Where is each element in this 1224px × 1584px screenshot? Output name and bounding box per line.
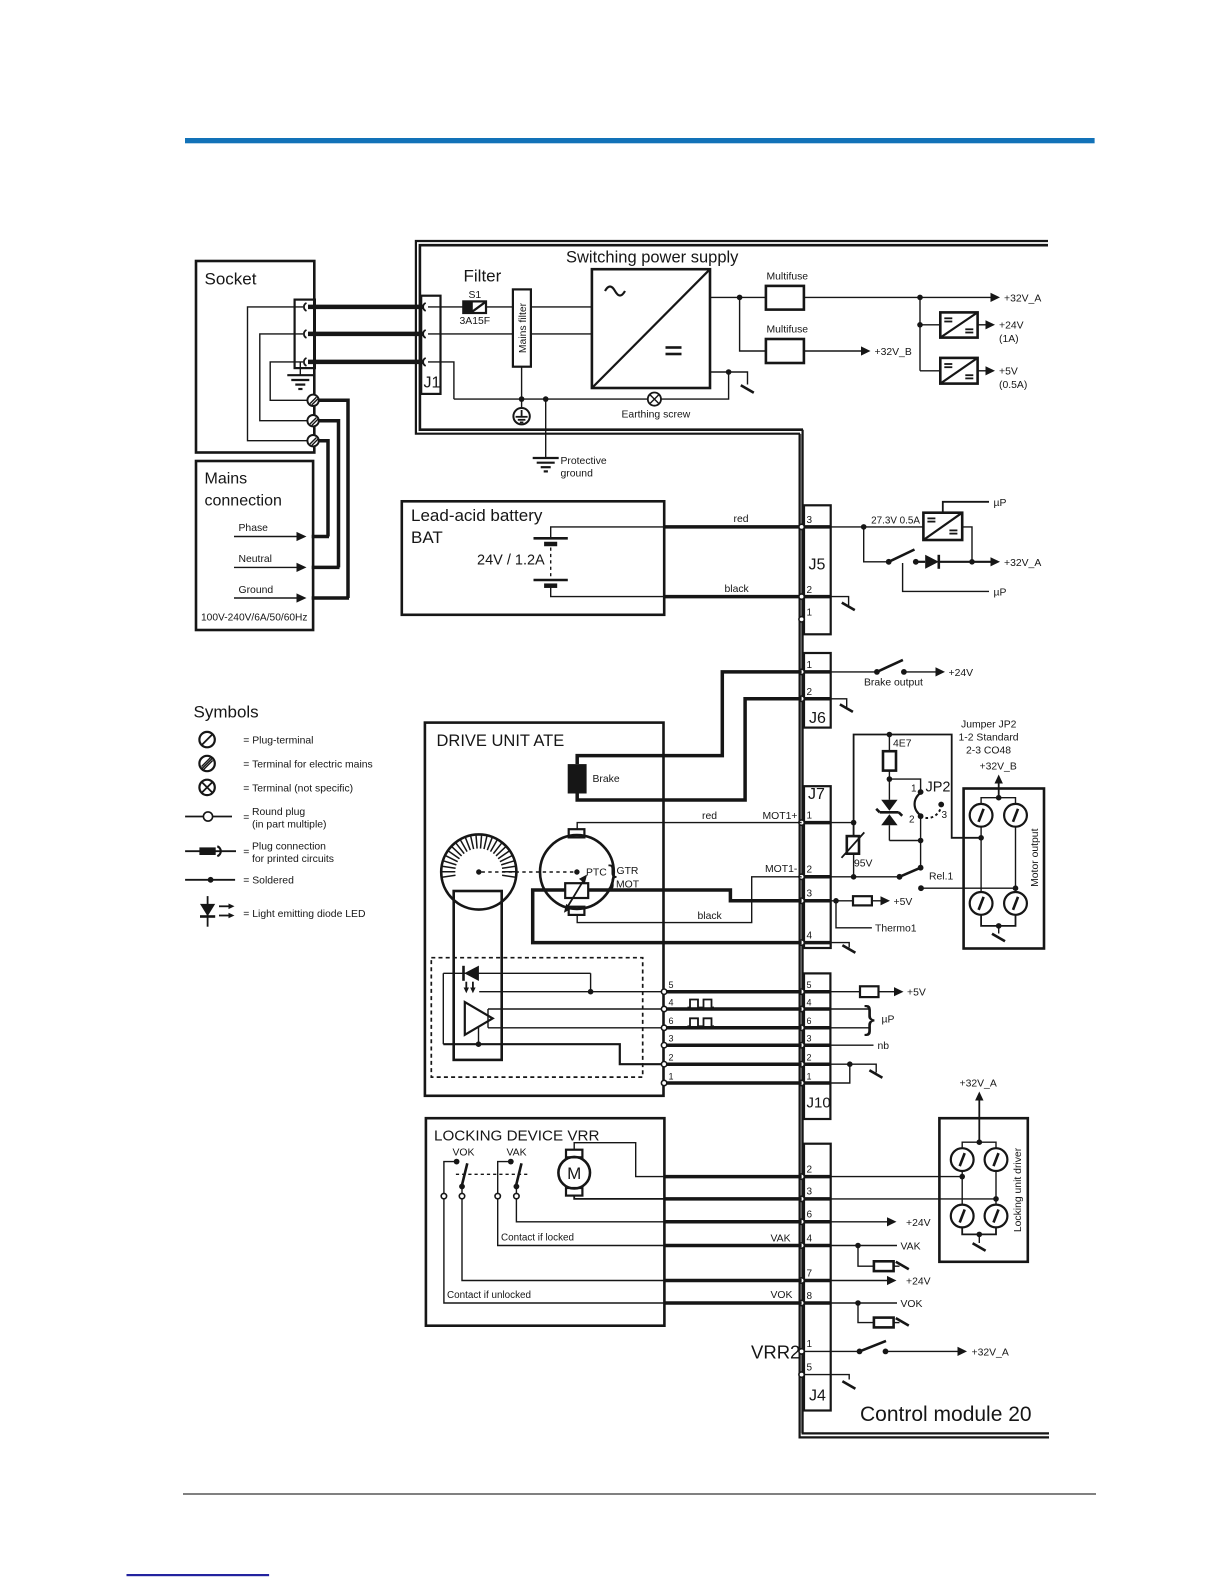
chassis tick at J5 pin2 — [831, 597, 855, 611]
svg-text:VAK: VAK — [507, 1148, 527, 1159]
wire J10 pin3 nb — [830, 1044, 873, 1046]
svg-text:J5: J5 — [809, 557, 826, 574]
svg-text:Multifuse: Multifuse — [767, 272, 809, 283]
resistor +5V encoder — [860, 986, 879, 997]
svg-text:1: 1 — [807, 608, 813, 619]
svg-text:Phase: Phase — [239, 523, 269, 534]
junction diode output — [969, 559, 975, 565]
cable encoder 2 — [664, 1062, 802, 1066]
svg-text:JP2: JP2 — [926, 780, 951, 796]
chassis tick driver — [973, 1234, 986, 1250]
H-bridge right column — [1015, 827, 1017, 892]
node +5V (0.5A) — [986, 366, 1028, 391]
junction driver left — [959, 1174, 965, 1180]
svg-text:J4: J4 — [809, 1388, 826, 1405]
wire amp bottom to common — [478, 1027, 480, 1044]
cable to J4 pin7 — [664, 1279, 801, 1283]
wire resistor to +5V node — [872, 900, 881, 902]
svg-text:GTR: GTR — [617, 866, 639, 877]
node +32V_A vrr2 — [958, 1347, 1009, 1359]
J10 pin 3 — [799, 1043, 804, 1048]
J4 pin 3 — [799, 1196, 804, 1201]
svg-text:PTC: PTC — [586, 868, 607, 879]
pulse symbol ch6 — [688, 1018, 715, 1026]
wire J10 pin6 to uP — [830, 1027, 869, 1029]
wire ground terminal to mains Ground — [319, 400, 348, 598]
svg-text:Control module 20: Control module 20 — [860, 1403, 1032, 1426]
svg-text:+32V_B: +32V_B — [875, 347, 912, 358]
wire J4 pin3 to driver — [831, 1198, 996, 1200]
locking motor M — [558, 1150, 590, 1196]
junction charger input — [861, 524, 867, 530]
svg-text:black: black — [698, 911, 723, 922]
svg-text:Rel.1: Rel.1 — [929, 872, 953, 883]
junction thermo tap — [833, 898, 839, 904]
J7 pin 1 — [799, 820, 804, 825]
svg-text:3: 3 — [669, 1034, 674, 1044]
wire switch to diode — [916, 561, 925, 563]
node +32V_A — [991, 293, 1042, 305]
wire Rel.1 throw to H-bridge — [921, 887, 1016, 889]
top blue rule — [185, 138, 1095, 143]
junction pin5 net — [588, 989, 594, 995]
chassis tick at J7 pin4 — [831, 943, 856, 953]
terminal for electric mains: ground (top) — [307, 395, 318, 406]
VOK terminal a — [441, 1193, 446, 1198]
junction 4E7 bottom — [887, 776, 893, 782]
svg-text:7: 7 — [807, 1268, 813, 1279]
J4 pin 4 — [799, 1243, 804, 1248]
connector J10 — [802, 973, 831, 1119]
cable brake wire to J6 pin2 — [664, 699, 802, 800]
diode battery to +32V_A — [925, 555, 939, 569]
J10 pin 5 — [799, 989, 804, 994]
svg-text:Brake output: Brake output — [864, 678, 923, 689]
legend soldered — [185, 876, 294, 887]
svg-text:Brake: Brake — [593, 774, 620, 785]
connector J6 — [802, 653, 831, 728]
H-bridge FET top-right — [1004, 804, 1027, 827]
wire Thermo1 — [836, 901, 872, 928]
J4 pin 7 — [799, 1278, 804, 1283]
svg-text:+32V_A: +32V_A — [960, 1079, 997, 1090]
svg-text:Contact if unlocked: Contact if unlocked — [447, 1290, 531, 1301]
svg-text:4: 4 — [807, 997, 812, 1007]
svg-text:Mains: Mains — [205, 471, 248, 488]
cable encoder 6 — [664, 1026, 802, 1030]
svg-text:3: 3 — [942, 810, 948, 821]
svg-text:3: 3 — [807, 1034, 812, 1044]
wire J4 pin2 to driver — [831, 1176, 963, 1178]
resistor 4E7 — [883, 735, 912, 780]
H-bridge FET top-left — [970, 804, 993, 827]
optocoupler dashed box — [431, 958, 642, 1077]
svg-text:Mains filter: Mains filter — [518, 302, 529, 353]
svg-text:Plug connection: Plug connection — [252, 842, 326, 853]
wire battery minus (black) — [551, 586, 665, 597]
svg-text:4: 4 — [669, 997, 674, 1007]
wire J10 pin4 to uP — [830, 1008, 869, 1010]
svg-text:VOK: VOK — [901, 1299, 923, 1310]
svg-text:2: 2 — [807, 687, 813, 698]
H-bridge bottom rail — [981, 915, 1015, 926]
svg-text:S1: S1 — [469, 290, 482, 301]
cable red to J5 pin3 — [664, 525, 801, 529]
svg-text:VOK: VOK — [771, 1290, 793, 1301]
svg-text:J1: J1 — [424, 375, 441, 392]
wire VOK-b to J4 pin7 — [462, 1199, 664, 1281]
svg-text:=: = — [243, 813, 249, 824]
drive motor MOT — [540, 829, 614, 915]
svg-text:DRIVE UNIT ATE: DRIVE UNIT ATE — [437, 732, 565, 750]
svg-text:8: 8 — [807, 1291, 813, 1302]
driver right column — [995, 1171, 997, 1205]
wire 4E7 to JP2 pin1 — [889, 779, 920, 792]
wire 24V output — [978, 324, 986, 326]
svg-text:black: black — [725, 584, 750, 595]
LED emitter — [464, 966, 479, 994]
connector J4 — [802, 1144, 831, 1411]
VAK terminal a — [495, 1193, 500, 1198]
junction transil/JP2 — [918, 838, 924, 844]
wire +32V_A rail — [804, 296, 991, 298]
terminal for electric mains: phase (bottom) — [307, 435, 318, 446]
junction left column — [978, 835, 984, 841]
J6 pin 1 — [799, 669, 804, 674]
wire diode to +32V_A — [939, 561, 991, 563]
chassis tick at J6 pin2 — [831, 699, 853, 712]
wire J6 pin1 brake output — [831, 671, 877, 673]
svg-text:VRR2: VRR2 — [751, 1342, 800, 1363]
svg-text:95V: 95V — [854, 859, 873, 870]
battery disconnect switch — [886, 550, 919, 565]
J6 pin 2 — [799, 696, 804, 701]
locking unit driver box — [939, 1118, 1027, 1262]
wire mains filter to SPS (phase) — [531, 306, 592, 308]
cable brake wire to J6 pin1 — [664, 672, 802, 756]
svg-text:Multifuse: Multifuse — [767, 325, 809, 336]
socket pin 2 — [304, 330, 307, 338]
wire charger output down — [962, 527, 972, 562]
wire J4 pin6 to +24V — [831, 1221, 888, 1223]
wire battery plus (red) — [551, 527, 665, 538]
wire VAK-a to J4 pin4 — [498, 1199, 665, 1246]
protective earth circle symbol — [513, 399, 529, 424]
J10 pin 2 — [799, 1062, 804, 1067]
svg-text:MOT1+: MOT1+ — [763, 811, 798, 822]
svg-text:6: 6 — [669, 1016, 674, 1026]
legend terminal not specific — [199, 780, 353, 795]
mains Phase arrow — [234, 523, 329, 541]
pulse symbol ch4 — [688, 1000, 715, 1008]
wire J10 pin2 with chassis tick — [830, 1064, 876, 1072]
svg-text:µP: µP — [994, 588, 1007, 599]
wire mains filter to SPS (neutral) — [531, 333, 592, 335]
cable socket pin3 to J1 pin3 — [308, 360, 424, 365]
wire J7 pin3 to +5V — [831, 900, 853, 902]
wire amp out B — [488, 1027, 664, 1029]
wire J4 pin1 to switch — [831, 1350, 860, 1352]
svg-text:1: 1 — [669, 1071, 674, 1081]
svg-text:connection: connection — [205, 493, 282, 510]
wire 5V output — [978, 370, 986, 372]
driver FET bottom-right — [985, 1205, 1008, 1228]
DC-DC converter 24V — [940, 312, 977, 337]
junction Rel.1 throw — [918, 885, 924, 891]
legend LED — [200, 896, 365, 927]
J5 pin 2 — [799, 594, 804, 599]
chassis tick H-bridge — [992, 926, 1005, 941]
svg-text:= Terminal (not specific): = Terminal (not specific) — [243, 784, 353, 795]
junction: protective ground tap — [543, 396, 549, 402]
H-bridge FET bottom-right — [1004, 892, 1027, 915]
wire J5 pin3 to charger — [831, 526, 923, 528]
motor output module box — [964, 789, 1044, 949]
footer navy underline — [127, 1574, 270, 1576]
LED wire — [443, 972, 590, 974]
svg-text:4E7: 4E7 — [893, 739, 912, 750]
svg-text:M: M — [567, 1164, 581, 1183]
svg-text:+32V_A: +32V_A — [972, 1347, 1009, 1358]
svg-text:Earthing screw: Earthing screw — [622, 410, 691, 421]
svg-text:Symbols: Symbols — [194, 703, 259, 722]
svg-text:Locking unit driver: Locking unit driver — [1013, 1147, 1024, 1232]
wire battery switch feed — [864, 527, 889, 562]
svg-text:ground: ground — [561, 469, 594, 480]
junction top rail — [996, 795, 1002, 801]
svg-text:red: red — [734, 514, 749, 525]
node +24V lock — [887, 1217, 931, 1229]
svg-text:4: 4 — [807, 1233, 813, 1244]
svg-text:Motor output: Motor output — [1030, 828, 1041, 886]
drive pin 6 — [661, 1025, 666, 1030]
fuse S1 3A15F — [460, 290, 491, 327]
svg-text:= Light emitting diode LED: = Light emitting diode LED — [243, 909, 365, 920]
connector J5 — [802, 505, 831, 634]
svg-text:1: 1 — [807, 1071, 812, 1081]
svg-text:+24V: +24V — [999, 321, 1024, 332]
Socket box — [196, 261, 314, 453]
wire common to pin2 — [443, 1044, 664, 1064]
svg-text:24V / 1.2A: 24V / 1.2A — [477, 553, 545, 569]
Mains filter box — [513, 289, 531, 366]
drive pin 5 — [661, 989, 666, 994]
svg-text:2-3 CO48: 2-3 CO48 — [966, 746, 1011, 757]
svg-text:Protective: Protective — [561, 456, 607, 467]
svg-text:5: 5 — [669, 980, 674, 990]
wire socket pin1 to phase terminal — [248, 307, 308, 441]
VOK terminal b — [459, 1193, 464, 1198]
J5 pin 3 — [799, 524, 804, 529]
drive pin 3 — [661, 1043, 666, 1048]
battery BAT symbol — [534, 538, 568, 585]
svg-text:27.3V 0.5A: 27.3V 0.5A — [871, 516, 920, 527]
wire S1 to mains filter — [486, 306, 513, 308]
svg-text:VOK: VOK — [453, 1148, 475, 1159]
transil suppressor — [876, 779, 902, 840]
svg-text:Neutral: Neutral — [239, 554, 273, 565]
drive pin 4 — [661, 1006, 666, 1011]
encoder disc — [441, 834, 516, 909]
brake output switch — [874, 660, 907, 675]
wire VOK-a contact-if-unlocked to J4 pin8 — [444, 1199, 665, 1303]
varistor 95V — [842, 823, 873, 877]
svg-text:for printed circuits: for printed circuits — [252, 854, 334, 865]
Mains connection box — [196, 461, 313, 630]
node +32V_B feed — [980, 762, 1017, 798]
mains Ground arrow — [234, 585, 349, 603]
brake coil — [568, 764, 620, 793]
svg-text:red: red — [702, 811, 717, 822]
brace uP encoder signals — [864, 999, 894, 1036]
wire J7 pin1 to protection net — [831, 822, 854, 824]
svg-text:Switching power supply: Switching power supply — [566, 249, 739, 267]
driver FET bottom-left — [951, 1205, 974, 1228]
junction 24V converter tap — [917, 295, 923, 301]
svg-text:2: 2 — [807, 585, 813, 596]
J4 pin 8 — [799, 1300, 804, 1305]
svg-text:1: 1 — [807, 660, 813, 671]
connector J7 — [802, 786, 831, 948]
J1 pin 3 — [423, 358, 426, 366]
cable to J4 pin8 — [664, 1301, 801, 1305]
svg-text:+32V_B: +32V_B — [980, 762, 1017, 773]
socket connector housing — [295, 300, 315, 369]
wire transil bottom to JP2 net — [889, 840, 920, 842]
wire switch to +24V — [904, 671, 936, 673]
svg-text:J7: J7 — [808, 786, 825, 803]
Multifuse 2 — [766, 325, 808, 364]
svg-text:+32V_A: +32V_A — [1004, 558, 1041, 569]
junction varistor top — [851, 820, 857, 826]
cable to J4 pin4 — [664, 1244, 801, 1248]
VOK relay coil with tick — [858, 1303, 909, 1327]
svg-text:Contact if locked: Contact if locked — [501, 1233, 574, 1244]
ground bus wire — [454, 372, 729, 399]
wire J10 pin1 jumper to pin2 — [830, 1064, 849, 1083]
drive pin 1 — [661, 1080, 666, 1085]
chassis tick at J4 pin5 — [831, 1375, 856, 1389]
wire switch control to uP — [903, 563, 989, 591]
wire converter feeds — [920, 297, 940, 370]
wire M+ to J4 pin2 — [574, 1143, 664, 1177]
charger DC-DC box — [923, 513, 962, 540]
J1 pin 1 — [423, 303, 426, 311]
wire neutral terminal to mains Neutral — [319, 421, 339, 568]
svg-text:J6: J6 — [809, 710, 826, 727]
brake wires inside drive unit — [577, 756, 663, 800]
earthing screw terminal — [622, 393, 691, 421]
junction varistor bottom — [851, 874, 857, 880]
cable socket pin1 to J1 pin1 — [308, 305, 424, 310]
junction 4E7 top — [887, 732, 893, 738]
svg-text:Jumper JP2: Jumper JP2 — [961, 720, 1017, 731]
J4 pin 2 — [799, 1174, 804, 1179]
wire charger to uP (top) — [943, 502, 989, 513]
svg-text:+32V_A: +32V_A — [1004, 294, 1041, 305]
svg-text:+24V: +24V — [949, 668, 974, 679]
wire switch to +32V_A — [886, 1350, 959, 1352]
junction: mains filter earth — [519, 396, 525, 402]
svg-text:2: 2 — [807, 1164, 813, 1175]
wire to multifuse 2 — [740, 297, 766, 351]
wire socket pin2 to neutral terminal — [260, 334, 308, 421]
VAK relay coil with tick — [858, 1246, 909, 1272]
PTC thermistor — [564, 875, 588, 913]
svg-text:5: 5 — [807, 1362, 813, 1373]
protective ground symbol — [533, 399, 607, 479]
J1 connector — [421, 296, 440, 394]
wire J1 pin1 to fuse S1 — [428, 306, 463, 308]
wire resistor to +5V — [879, 991, 895, 993]
cable encoder 4 — [664, 1007, 802, 1011]
wire J1 pin2 to mains filter — [428, 333, 513, 335]
J1 pin 2 — [423, 330, 426, 338]
wire PTC to J7 pin4 — [533, 890, 802, 943]
wire J10 pin5 to resistor — [830, 991, 860, 993]
legend round plug — [185, 807, 326, 831]
svg-text:6: 6 — [807, 1210, 813, 1221]
chassis tick at SPS — [729, 372, 754, 393]
VAK terminal b — [514, 1193, 519, 1198]
mechanical coupling dashed — [456, 1173, 528, 1175]
svg-text:+5V: +5V — [907, 988, 926, 999]
J4 pin 1 — [799, 1349, 804, 1354]
svg-text:Round plug: Round plug — [252, 807, 305, 818]
encoder sensor fork — [454, 891, 502, 1060]
svg-text:MOT1-: MOT1- — [765, 864, 797, 875]
svg-text:1: 1 — [807, 810, 813, 821]
svg-text:3A15F: 3A15F — [460, 316, 491, 327]
junction VAK coil — [855, 1243, 861, 1249]
H-bridge top rail — [981, 798, 1015, 804]
wire MOT1- black — [577, 877, 801, 923]
node +32V_A battery — [991, 557, 1042, 569]
svg-text:100V-240V/6A/50/60Hz: 100V-240V/6A/50/60Hz — [201, 613, 307, 624]
J7 pin 2 — [799, 874, 804, 879]
control module border (double, open right) — [800, 430, 1049, 1438]
jumper JP2 — [909, 780, 951, 826]
photo amplifier — [465, 1002, 493, 1035]
wire amp out A — [488, 1009, 664, 1028]
wire amp to pin5 net — [479, 973, 664, 991]
driver bottom rail — [962, 1227, 996, 1234]
svg-text:= Terminal for electric mains: = Terminal for electric mains — [243, 760, 372, 771]
svg-text:VAK: VAK — [901, 1242, 921, 1253]
wire protection riser — [854, 735, 982, 838]
DC-DC converter 5V — [940, 358, 977, 384]
junction driver bottom — [977, 1232, 983, 1238]
cable black to J5 pin2 — [664, 595, 801, 599]
svg-text:2: 2 — [807, 865, 813, 876]
legend plug-terminal — [199, 732, 313, 747]
wire JP2 pin2 down — [920, 816, 922, 868]
wire MOT1+ red — [577, 823, 801, 830]
driver top rail — [962, 1142, 996, 1148]
svg-text:J10: J10 — [807, 1095, 831, 1112]
Lead-acid battery box — [402, 501, 664, 615]
drive unit connector pins — [669, 980, 674, 1081]
mains Neutral arrow — [234, 554, 340, 572]
driver left column — [961, 1171, 963, 1205]
wire J4 pin4 VAK sense — [831, 1245, 897, 1247]
svg-text:µP: µP — [882, 1015, 895, 1026]
svg-text:2: 2 — [807, 1053, 812, 1063]
power supply unit enclosure (double border, open right) — [416, 241, 1048, 434]
wire LED cathode branch — [442, 973, 444, 1044]
svg-text:2: 2 — [909, 815, 915, 826]
svg-text:nb: nb — [878, 1041, 890, 1052]
